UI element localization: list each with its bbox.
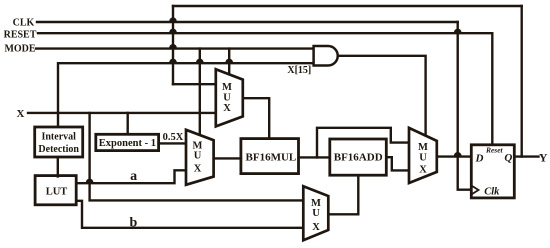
svg-text:Interval: Interval bbox=[41, 131, 76, 142]
svg-text:Q: Q bbox=[504, 152, 512, 164]
svg-text:b: b bbox=[130, 216, 138, 231]
svg-text:X: X bbox=[17, 108, 25, 120]
svg-text:0.5X: 0.5X bbox=[163, 132, 184, 143]
svg-text:MODE: MODE bbox=[4, 44, 35, 55]
svg-text:CLK: CLK bbox=[13, 17, 35, 28]
svg-text:LUT: LUT bbox=[46, 187, 68, 198]
svg-text:X: X bbox=[223, 103, 231, 114]
svg-text:U: U bbox=[194, 151, 202, 162]
svg-text:X: X bbox=[312, 222, 320, 233]
svg-text:a: a bbox=[130, 169, 137, 184]
svg-text:U: U bbox=[419, 153, 427, 164]
svg-text:Clk: Clk bbox=[484, 186, 500, 197]
svg-text:U: U bbox=[312, 208, 320, 219]
svg-text:Y: Y bbox=[539, 151, 548, 165]
svg-text:X: X bbox=[419, 164, 427, 175]
svg-text:Reset: Reset bbox=[485, 146, 504, 155]
svg-text:BF16ADD: BF16ADD bbox=[334, 152, 383, 164]
svg-text:RESET: RESET bbox=[4, 30, 37, 41]
svg-text:Exponent - 1: Exponent - 1 bbox=[99, 138, 156, 149]
svg-text:M: M bbox=[222, 82, 232, 93]
svg-text:BF16MUL: BF16MUL bbox=[246, 151, 297, 163]
svg-text:X[15]: X[15] bbox=[287, 65, 311, 76]
svg-text:X: X bbox=[194, 163, 202, 174]
svg-text:D: D bbox=[475, 153, 484, 165]
svg-text:M: M bbox=[418, 142, 428, 153]
svg-text:M: M bbox=[193, 140, 203, 151]
svg-text:Detection: Detection bbox=[38, 144, 79, 155]
svg-text:U: U bbox=[223, 93, 231, 104]
